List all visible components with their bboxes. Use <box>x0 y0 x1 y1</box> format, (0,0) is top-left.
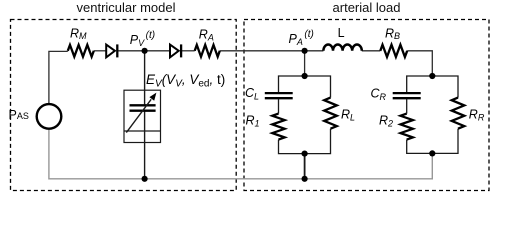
svg-text:ventricular model: ventricular model <box>77 0 176 15</box>
svg-text:L: L <box>338 26 345 40</box>
svg-text:PAS: PAS <box>9 108 29 122</box>
svg-text:arterial load: arterial load <box>333 0 401 15</box>
